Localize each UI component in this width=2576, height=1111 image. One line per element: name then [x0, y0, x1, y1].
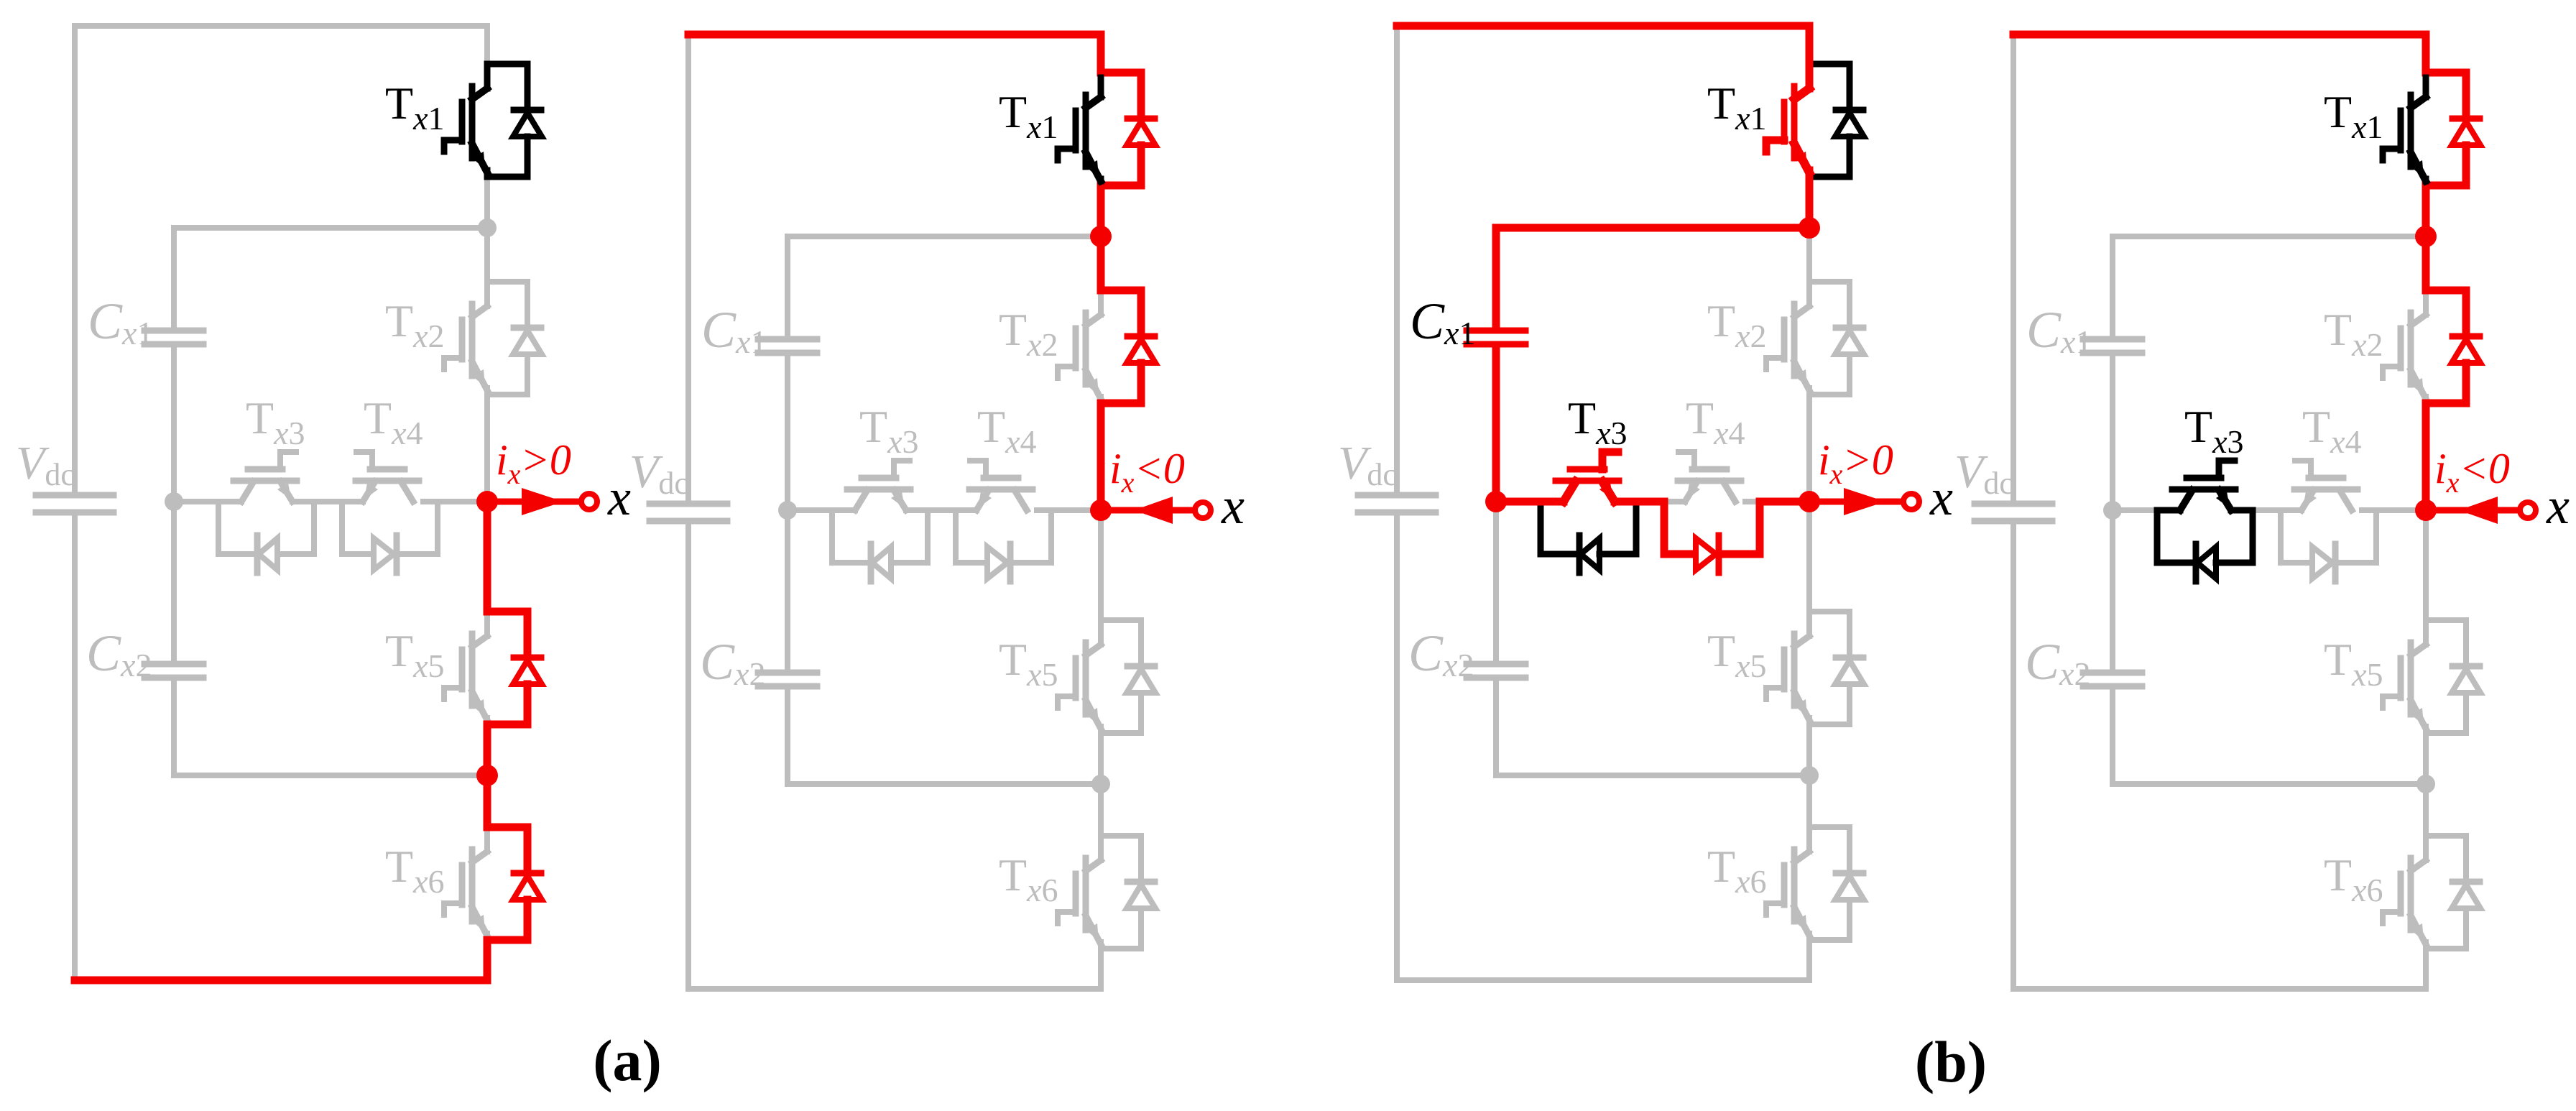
capacitor Cx1 panel-b1: [1467, 331, 1525, 344]
label Tx2 panel-b2: [2324, 304, 2383, 363]
transistor Tx3 panel-a2 base: [847, 461, 910, 510]
node x panel-a1: [476, 491, 498, 512]
diode Tx1 panel-a2 conducting: [1127, 73, 1155, 185]
wire panel-a1 leg Tx1-Tx2: [484, 177, 490, 282]
label Cx2 panel-a1: [86, 624, 152, 683]
label ix<0 panel-a2: [1109, 445, 1185, 499]
label Cx2 panel-b1: [1408, 624, 1474, 683]
wire panel-a1 inner branch upper: [171, 228, 177, 328]
transistor Tx2 panel-a2 base: [1058, 290, 1155, 403]
svg-text:x: x: [2546, 477, 2570, 535]
terminal x panel-b1: [1809, 488, 1919, 515]
junction panel-b2 midpoint: [2103, 501, 2122, 520]
label Tx3 panel-a1: [246, 392, 305, 451]
wire panel-a1 midline center: [292, 499, 363, 504]
capacitor Cx1 panel-a2: [758, 339, 817, 353]
diode Tx6 panel-a1 conducting: [513, 827, 542, 940]
wire panel-a1 DC bus left lower: [75, 515, 487, 980]
capacitor Vdc panel-b2: [1975, 504, 2052, 521]
capacitor Cx2 panel-b2: [2083, 673, 2142, 686]
capacitor Cx1 panel-b1 charging (red): [1467, 331, 1525, 344]
wire panel-a2 DC bus left lower: [688, 524, 1101, 989]
svg-text:x: x: [1929, 469, 1953, 526]
label Vdc panel-b2: [1954, 446, 2013, 501]
wire panel-b2 leg node-Tx5: [2423, 510, 2429, 620]
diode Tx1 panel-b1 blocking (black): [1809, 64, 1864, 177]
label Tx5 panel-b2: [2324, 634, 2383, 693]
transistor Tx3 panel-a1 base: [234, 452, 297, 502]
node x panel-a2: [1090, 499, 1112, 521]
diode loop Tx4 panel-a1 base: [342, 502, 438, 573]
node panel-b2 upper junction: [2415, 226, 2437, 247]
wire panel-b2 leg Tx5-Tx6: [2423, 733, 2429, 836]
wire panel-a1 top rail and DC bus left: [75, 26, 487, 492]
transistor Tx2 panel-a1 base: [444, 282, 542, 395]
wire panel-b1 red path Tx1-junction: [1806, 177, 1814, 228]
diode Tx2 panel-b2 conducting: [2452, 290, 2480, 403]
svg-text:ix>0: ix>0: [496, 436, 571, 490]
wire panel-b1 inner bottom horizontal: [1496, 773, 1809, 778]
wire panel-a2 inner top horizontal: [788, 234, 1101, 239]
label Tx4 panel-a1: [364, 392, 423, 451]
diode loop Tx3 panel-b2 base: [2157, 510, 2253, 581]
label Tx1 panel-b2: [2324, 86, 2383, 145]
wire panel-b1 red path Tx4diode-node: [1720, 502, 1809, 554]
wire panel-b2 leg top: [2423, 34, 2429, 73]
wire panel-b1 top rail and DC bus left: [1397, 26, 1809, 492]
diode loop Tx4 panel-b1 base: [1664, 502, 1760, 573]
wire panel-b1 red path top rail: [1397, 26, 1809, 64]
label Tx2 panel-a1: [385, 295, 445, 354]
svg-text:(a): (a): [593, 1028, 662, 1093]
wire panel-b1 leg Tx5-Tx6: [1806, 724, 1812, 827]
wire panel-b1 midline left: [1496, 499, 1564, 504]
wire panel-a1 red path Tx6-Tx5: [487, 724, 527, 827]
wire panel-a2 inner branch upper: [785, 236, 790, 336]
label Tx4 panel-b2: [2302, 401, 2362, 460]
wire panel-b1 red path Cx1-midpoint: [1492, 347, 1500, 502]
transistor Tx1 panel-b1 conducting (red): [1766, 69, 1809, 172]
capacitor Cx2 panel-a2: [758, 673, 817, 686]
label Tx5 panel-a1: [385, 625, 445, 684]
diode loop Tx4 panel-b2 base: [2281, 510, 2376, 581]
label Cx1 panel-b1: [1410, 292, 1475, 351]
transistor Tx1 panel-a2 base: [1058, 73, 1155, 185]
transistor Tx1 panel-b2 gated (black): [2383, 78, 2426, 181]
junction panel-a1 leg-inner-top: [478, 218, 497, 237]
wire panel-b2 midline left: [2113, 507, 2180, 513]
wire panel-a1 red path Tx5-node: [487, 502, 527, 612]
wire panel-b2 midline center: [2231, 507, 2302, 513]
wire panel-b2 inner branch upper: [2110, 236, 2115, 336]
transistor Tx5 panel-b2 base: [2383, 620, 2480, 733]
label x panel-b2: [2546, 477, 2570, 535]
wire panel-a2 top rail and DC bus left: [688, 34, 1101, 501]
node panel-a2 upper junction: [1090, 226, 1112, 247]
wire panel-b1 red path midline left: [1496, 498, 1564, 506]
wire panel-b1 inner branch upper: [1493, 228, 1499, 328]
label Tx3 panel-b1: [1568, 392, 1628, 451]
diode loop Tx4 panel-a2 base: [956, 510, 1051, 581]
label Tx1 panel-b1: [1707, 78, 1767, 137]
label Tx6 panel-a2: [999, 849, 1058, 908]
label Vdc panel-a2: [629, 446, 688, 501]
wire panel-b1 inner branch lower: [1493, 681, 1499, 775]
label Tx6 panel-b1: [1707, 841, 1767, 900]
label Tx1 panel-a1: [385, 78, 445, 137]
diode loop Tx3 panel-a1 base: [218, 502, 314, 573]
node panel-b1 midpoint junction: [1485, 491, 1507, 512]
label Cx2 panel-a2: [700, 633, 765, 692]
wire panel-a1 leg top: [484, 26, 490, 64]
wire panel-a2 leg top: [1098, 34, 1104, 73]
wire panel-a2 midline center: [906, 507, 977, 513]
label Tx1 panel-a2: [999, 86, 1058, 145]
wire panel-a1 leg Tx5-Tx6: [484, 724, 490, 827]
node x panel-b2: [2415, 499, 2437, 521]
junction panel-b2 leg-inner-bottom: [2416, 775, 2435, 793]
transistor Tx4 panel-a1 base: [356, 452, 419, 502]
transistor Tx4 panel-b1 base: [1678, 452, 1741, 502]
label Vdc panel-a1: [16, 437, 75, 492]
transistor Tx1 panel-a1 base: [444, 64, 542, 177]
transistor Tx3 panel-b2 gated (black): [2172, 461, 2235, 510]
wire panel-a2 leg Tx2-node: [1098, 403, 1104, 510]
junction panel-a2 leg-inner-bottom: [1091, 775, 1110, 793]
wire panel-a2 red path top rail: [688, 34, 1141, 73]
label Tx4 panel-a2: [977, 401, 1037, 460]
wire panel-a2 midline left: [788, 507, 855, 513]
diode Tx4 panel-b1 conducting (red): [1696, 535, 1719, 573]
label (a): [593, 1028, 662, 1093]
node panel-a1 lower junction: [476, 765, 498, 786]
transistor Tx1 panel-a1 on-state (black): [444, 64, 542, 177]
wire panel-b2 red path Tx1-Tx2: [2426, 185, 2466, 290]
wire panel-a2 inner branch middle: [785, 356, 790, 670]
wire panel-a2 leg node-Tx5: [1098, 510, 1104, 620]
label Tx3 panel-b2: [2184, 401, 2244, 460]
label Cx2 panel-b2: [2025, 633, 2090, 692]
wire panel-b1 leg Tx1-Tx2: [1806, 177, 1812, 282]
wire panel-a2 leg Tx5-Tx6: [1098, 733, 1104, 836]
svg-text:ix<0: ix<0: [2434, 445, 2510, 499]
capacitor Vdc panel-a1: [36, 495, 114, 512]
transistor Tx5 panel-a2 base: [1058, 620, 1155, 733]
svg-text:ix>0: ix>0: [1818, 436, 1893, 490]
wire panel-b2 leg Tx1-Tx2: [2423, 185, 2429, 290]
wire panel-a2 inner bottom horizontal: [788, 781, 1101, 787]
transistor Tx1 panel-a2 gated (black): [1058, 78, 1101, 181]
wire panel-b2 inner branch middle: [2110, 356, 2115, 670]
label x panel-b1: [1929, 469, 1953, 526]
wire panel-a1 leg node-Tx5: [484, 502, 490, 612]
label Tx5 panel-a2: [999, 634, 1058, 693]
junction panel-a1 midpoint: [165, 492, 183, 511]
diode Tx1 panel-b2 conducting: [2452, 73, 2480, 185]
transistor Tx6 panel-b1 base: [1766, 827, 1864, 940]
capacitor Vdc panel-a2: [650, 504, 727, 521]
wire panel-a2 leg bottom: [1098, 949, 1104, 989]
wire panel-a2 leg Tx1-Tx2: [1098, 185, 1104, 290]
transistor Tx5 panel-b1 base: [1766, 612, 1864, 724]
wire panel-a1 red path bottom rail: [75, 940, 527, 980]
wire panel-b1 leg bottom: [1806, 940, 1812, 980]
capacitor Cx2 panel-b1: [1467, 664, 1525, 678]
transistor Tx6 panel-a1 base: [444, 827, 542, 940]
transistor Tx6 panel-b2 base: [2383, 836, 2480, 949]
wire panel-b2 DC bus left lower: [2013, 524, 2426, 989]
label Tx2 panel-a2: [999, 304, 1058, 363]
label (b): [1915, 1029, 1987, 1094]
transistor Tx5 panel-a1 base: [444, 612, 542, 724]
wire panel-a2 inner branch lower: [785, 689, 790, 784]
svg-text:x: x: [607, 469, 631, 526]
wire panel-b1 inner top horizontal: [1496, 225, 1809, 231]
transistor Tx6 panel-a2 base: [1058, 836, 1155, 949]
label Tx6 panel-b2: [2324, 849, 2383, 908]
svg-text:ix<0: ix<0: [1109, 445, 1185, 499]
transistor Tx1 panel-b2 base: [2383, 73, 2480, 185]
label Cx1 panel-a1: [88, 292, 153, 351]
wire panel-b1 DC bus left lower: [1397, 515, 1809, 980]
transistor Tx4 panel-b2 base: [2294, 461, 2358, 510]
diode loop Tx3 panel-a2 base: [832, 510, 928, 581]
transistor Tx3 panel-b2 base: [2172, 461, 2235, 510]
wire panel-b2 inner top horizontal: [2113, 234, 2426, 239]
diode loop Tx3 panel-b1 blocking (black): [1541, 502, 1636, 573]
wire panel-b1 midline center: [1615, 499, 1685, 504]
wire panel-b2 inner branch lower: [2110, 689, 2115, 784]
label x panel-a2: [1221, 477, 1245, 535]
label Tx2 panel-b1: [1707, 295, 1767, 354]
label Tx3 panel-a2: [859, 401, 919, 460]
wire panel-a1 midline right: [423, 499, 487, 504]
diode loop Tx3 panel-b1 base: [1541, 502, 1636, 573]
junction panel-b1 leg-inner-bottom: [1800, 766, 1819, 785]
label Tx5 panel-b1: [1707, 625, 1767, 684]
label Tx4 panel-b1: [1686, 392, 1745, 451]
node x panel-b1: [1799, 491, 1820, 512]
wire panel-b2 red path Tx2-node: [2426, 403, 2466, 510]
wire panel-b2 top rail and DC bus left: [2013, 34, 2426, 501]
transistor Tx1 panel-b1 base: [1766, 64, 1864, 177]
label ix<0 panel-b2: [2434, 445, 2510, 499]
terminal x panel-a1: [487, 488, 597, 515]
wire panel-b2 midline right: [2362, 507, 2426, 513]
wire panel-b2 inner bottom horizontal: [2113, 781, 2426, 787]
transistor Tx3 panel-b1 conducting (red): [1556, 452, 1619, 502]
wire panel-b2 leg bottom: [2423, 949, 2429, 989]
wire panel-a1 inner bottom horizontal: [174, 773, 487, 778]
capacitor Cx1 panel-a1: [144, 331, 203, 344]
wire panel-a1 leg Tx2-node: [484, 395, 490, 502]
label Tx6 panel-a1: [385, 841, 445, 900]
terminal x panel-b2: [2426, 497, 2536, 524]
wire panel-a1 midline left: [174, 499, 241, 504]
wire panel-b1 leg top: [1806, 26, 1812, 64]
svg-text:(b): (b): [1915, 1029, 1987, 1094]
diode Tx5 panel-a1 conducting: [513, 612, 542, 724]
wire panel-a2 midline right: [1037, 507, 1101, 513]
wire panel-a1 inner top horizontal: [174, 225, 487, 231]
transistor Tx2 panel-b2 base: [2383, 290, 2480, 403]
capacitor Cx1 panel-b2: [2083, 339, 2142, 353]
wire panel-b1 red path Tx3-Tx4loop: [1615, 502, 1694, 554]
junction panel-a2 midpoint: [778, 501, 797, 520]
transistor Tx3 panel-b1 base: [1556, 452, 1619, 502]
transistor Tx4 panel-a2 base: [969, 461, 1033, 510]
svg-text:x: x: [1221, 477, 1245, 535]
label x panel-a1: [607, 469, 631, 526]
wire panel-a1 leg bottom: [484, 940, 490, 980]
wire panel-b1 leg Tx2-node: [1806, 395, 1812, 502]
label Cx1 panel-a2: [701, 301, 767, 360]
wire panel-a1 inner branch lower: [171, 681, 177, 775]
terminal x panel-a2: [1101, 497, 1211, 524]
wire panel-b1 inner branch middle: [1493, 347, 1499, 661]
capacitor Vdc panel-b1: [1358, 495, 1436, 512]
wire panel-b2 leg Tx2-node: [2423, 403, 2429, 510]
capacitor Cx2 panel-a1: [144, 664, 203, 678]
transistor Tx2 panel-b1 base: [1766, 282, 1864, 395]
wire panel-b1 red path inner top: [1496, 228, 1809, 328]
diode Tx2 panel-a2 conducting: [1127, 290, 1155, 403]
wire panel-b1 leg node-Tx5: [1806, 502, 1812, 612]
label Cx1 panel-b2: [2026, 301, 2092, 360]
wire panel-a2 red path Tx2-node: [1101, 403, 1141, 510]
label ix>0 panel-a1: [496, 436, 571, 490]
label ix>0 panel-b1: [1818, 436, 1893, 490]
wire panel-b2 red path top rail: [2013, 34, 2466, 73]
wire panel-a1 inner branch middle: [171, 347, 177, 661]
node panel-b1 upper junction: [1799, 217, 1820, 239]
wire panel-b1 midline right: [1745, 499, 1809, 504]
wire panel-a2 red path Tx1-Tx2: [1101, 185, 1141, 290]
label Vdc panel-b1: [1338, 437, 1397, 492]
diode loop Tx3 panel-b2 (black): [2157, 510, 2253, 581]
